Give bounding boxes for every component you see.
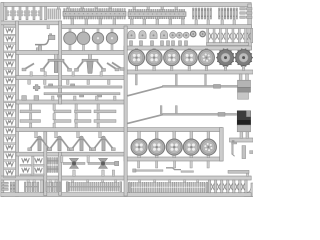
drive sprocket wheels [216,49,253,71]
ladder frame with spring parts [190,28,252,45]
leaf spring cluster B [219,8,238,25]
track length part A [63,6,126,24]
axle parts with hubs [61,156,119,176]
bottom comb C long [66,182,122,192]
runner H7 [16,128,222,132]
suspension arms cluster two [75,54,125,73]
small bracket parts [22,80,40,100]
bottom comb B [46,182,61,192]
equipment bar parts grid [20,104,116,128]
small block parts [130,41,188,46]
runner H2 main [60,25,251,29]
volute spring column [6,28,14,174]
thin rod part lower [128,106,237,124]
bracket part [35,25,55,51]
leaf spring cluster A [193,8,212,25]
bottom comb A [24,182,39,192]
swing arm cluster 4 [92,132,116,151]
runner H10 bottom [1,193,251,197]
sprue bottom right corner [244,183,255,197]
bracket parts lower right [228,140,253,176]
volute spring box parts [20,156,44,176]
top row divider pins [5,7,47,20]
striped plate parts [240,8,252,19]
leaf spring flat part [2,182,15,192]
fuel tank part upper [238,74,251,99]
round cap parts [170,32,190,38]
bottom ladder with spring parts [208,180,247,193]
rail V4 [124,26,127,196]
small spring combs [47,158,58,173]
long spring comb part [128,182,208,192]
road wheel row two [129,49,215,71]
runner H8 right [124,157,222,161]
runner H6 left [16,100,127,104]
thin rods under runner H8 [133,161,210,172]
wheel row one plain discs [64,29,118,51]
swing arm cluster 3 [70,132,94,151]
runner H8 left [16,152,127,156]
sprue right rail upper [248,4,252,50]
swing arm cluster 2 [48,132,72,151]
rail V2 [44,132,47,196]
axle rod parts [44,80,123,100]
sprue outer top runner [1,3,251,7]
rail V3 lower [59,152,62,195]
sprue left rail [1,3,4,197]
runner H9 [1,176,251,180]
track length part B [128,6,186,24]
suspension arms cluster one [22,54,72,72]
gate stubs on H5 [30,72,102,76]
dome hatch parts [128,31,168,39]
runner H3 left [16,50,127,54]
cone parts [7,11,40,16]
runner H5 left [16,76,127,80]
small comb part [48,6,61,19]
rail V3 upper [59,21,62,104]
bottom divider bar [41,180,44,193]
runner H3 right [124,46,251,50]
left ladder cell bars [4,26,16,178]
comb gate tabs [27,180,199,183]
rail V1 [16,21,19,197]
road wheel row three [131,131,216,157]
runner mini right [230,138,254,142]
fuel tank part lower dark [237,111,250,138]
swing arm cluster 1 [28,132,52,151]
thin rod part upper [128,74,238,95]
rail V6 [220,128,224,161]
runner H4 right [124,70,253,74]
runner H2 left [1,21,62,25]
